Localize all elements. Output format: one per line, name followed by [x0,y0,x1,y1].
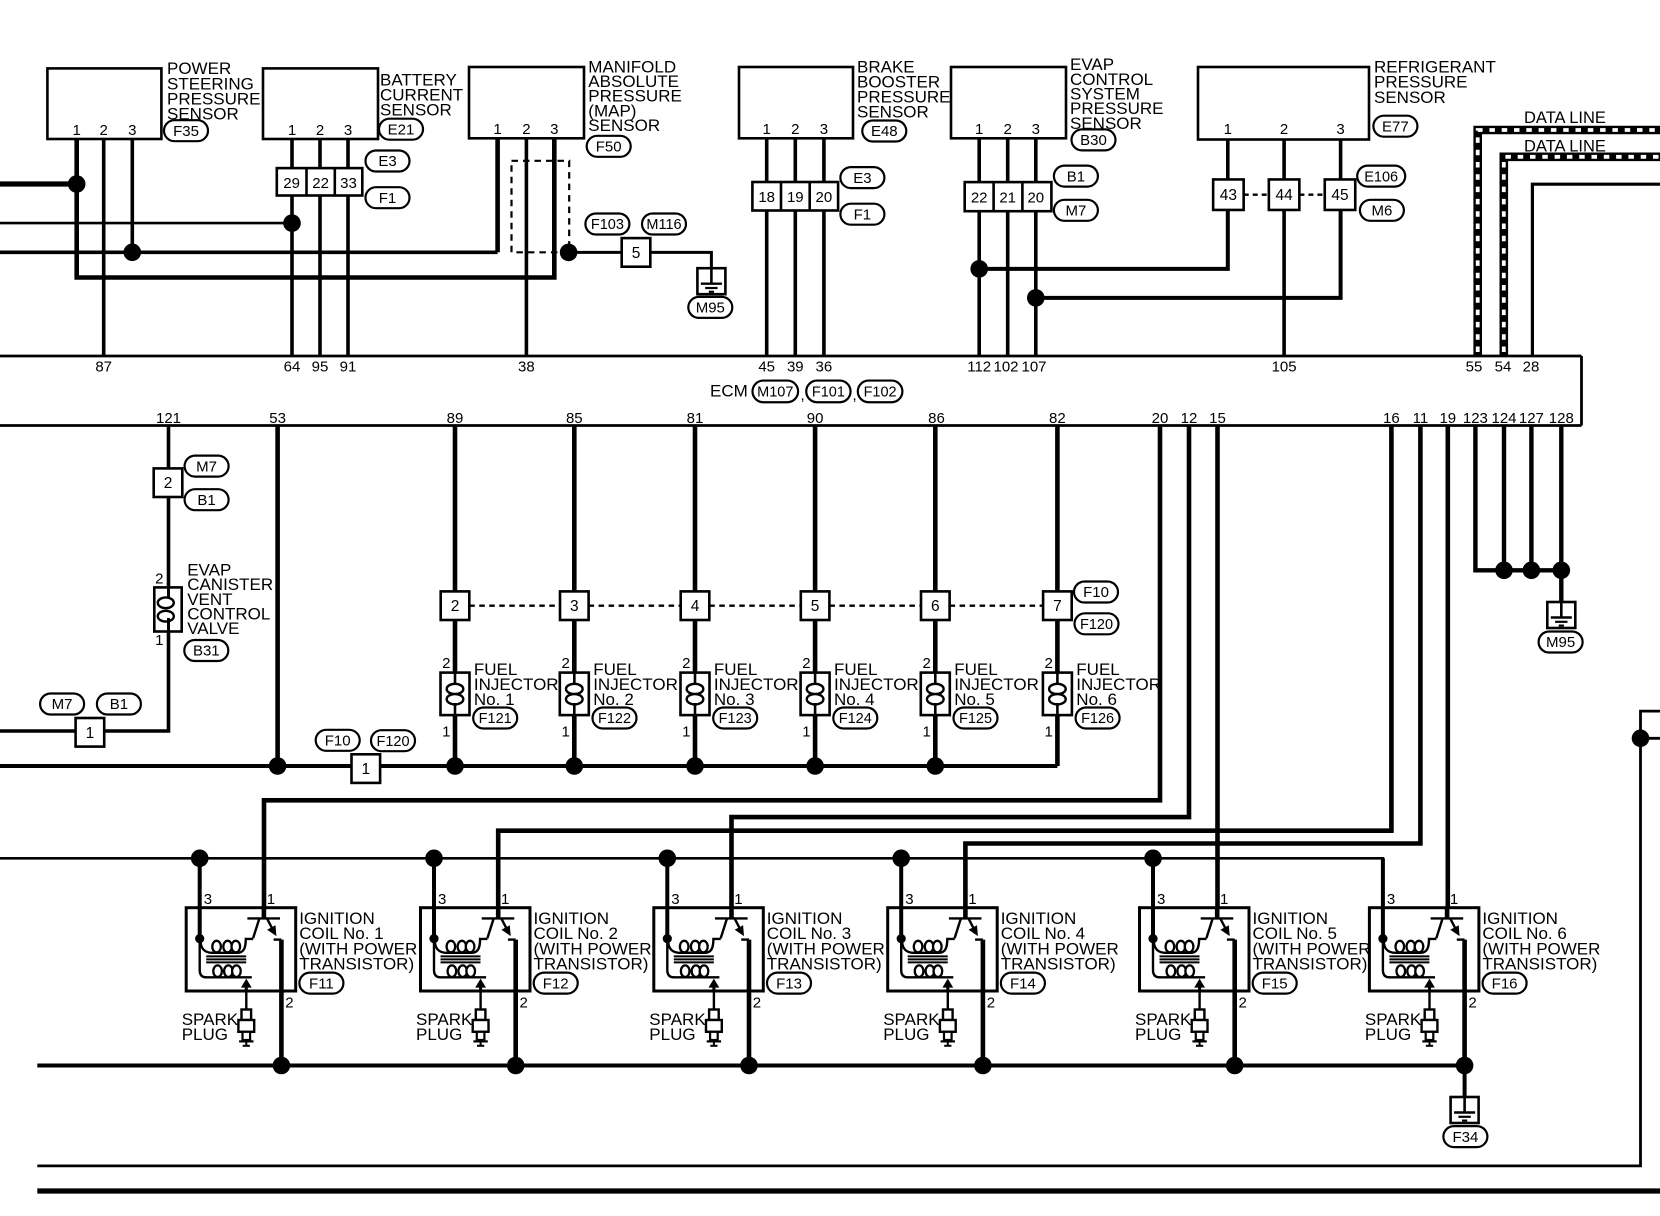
wire: dashed splice link [950,605,1044,607]
svg-text:PLUG: PLUG [1135,1025,1181,1044]
svg-text:38: 38 [518,359,535,376]
svg-text:22: 22 [971,189,988,206]
svg-text:E106: E106 [1364,169,1398,185]
svg-text:45: 45 [1331,187,1348,204]
node: shield drain junction [560,244,578,262]
svg-text:M95: M95 [696,300,725,317]
svg-text:2: 2 [1468,995,1476,1012]
svg-text:No. 1: No. 1 [474,690,515,709]
svg-text:2: 2 [451,598,460,615]
wire: ECM to fuel injector No. 6 [1055,426,1060,592]
wire: ECM pin 19 to ignition coil No. 6 pin 1 [1446,426,1451,919]
svg-text:F102: F102 [864,385,897,401]
svg-text:SENSOR: SENSOR [588,116,660,135]
svg-text:PLUG: PLUG [883,1025,929,1044]
svg-text:M7: M7 [1065,203,1086,220]
svg-text:64: 64 [284,359,301,376]
connector label B30 [1072,129,1116,150]
svg-text:4: 4 [691,598,700,615]
node: junction coil 5 pin 2 on ground bus [1226,1057,1244,1075]
wire: ECM pin 124 [1502,426,1506,571]
connector label F10 [1074,582,1118,603]
node: junction injector No. 4 on bus [806,757,824,775]
svg-text:F126: F126 [1081,711,1114,727]
svg-text:3: 3 [671,891,679,908]
svg-text:2: 2 [791,121,799,138]
svg-text:No. 6: No. 6 [1076,690,1117,709]
svg-text:PLUG: PLUG [182,1025,228,1044]
svg-text:F121: F121 [479,711,512,727]
wire: dashed link 44-45 [1299,193,1324,195]
svg-text:M116: M116 [646,217,681,233]
power steering pressure sensor F35 [47,68,161,139]
fuel injector No. 4 F124 [801,620,830,766]
wire: off-page line from right edge down to bottom rail [37,711,1660,1166]
svg-text:F1: F1 [379,190,397,207]
svg-text:121: 121 [156,410,181,427]
connector label F1 [366,187,410,208]
svg-text:TRANSISTOR): TRANSISTOR) [299,954,414,973]
svg-text:107: 107 [1021,359,1046,376]
wire: dashed splice link [709,605,801,607]
wire: ECM pin 15 to ignition coil No. 5 pin 1 [1215,426,1220,919]
wire: power steering pin 3 drop [131,139,135,252]
svg-text:B31: B31 [193,643,220,660]
svg-text:1: 1 [288,122,296,139]
node: junction pin 53 / bus [269,757,287,775]
svg-text:20: 20 [1027,189,1044,206]
svg-text:3: 3 [204,891,212,908]
connector pin 43 [1213,179,1244,210]
connector label B1 [185,489,229,510]
wire: brake booster pin 3 to ECM pin 36 [822,139,826,356]
node: junction coil 1 pin 2 on ground bus [273,1057,291,1075]
node: junction EVAP pin 1 / refrigerant pin 1 [970,260,988,278]
svg-text:F123: F123 [719,711,752,727]
svg-text:18: 18 [758,189,775,206]
svg-text:DATA LINE: DATA LINE [1524,109,1606,127]
connector label F10 [316,730,360,751]
svg-text:PLUG: PLUG [416,1025,462,1044]
svg-text:28: 28 [1523,359,1540,376]
svg-text:7: 7 [1053,598,1062,615]
svg-text:85: 85 [566,410,583,427]
wire: brake booster pin 1 to ECM pin 45 [765,139,769,356]
svg-text:1: 1 [442,724,450,741]
node: junction pin 128 [1553,562,1571,580]
svg-text:No. 2: No. 2 [593,690,634,709]
node: junction coil 2 pin 3 on supply bus [425,850,443,868]
node: junction pin 127 [1523,562,1541,580]
connector label B1 [97,694,141,715]
svg-text:B30: B30 [1080,132,1107,149]
svg-text:54: 54 [1495,359,1512,376]
svg-text:B1: B1 [197,492,215,509]
svg-text:39: 39 [787,359,804,376]
splice 1 (M7/B1) [76,718,105,747]
svg-text:91: 91 [340,359,357,376]
node: junction coil 6 pin 2 on ground bus [1456,1057,1474,1075]
svg-text:20: 20 [1152,410,1169,427]
wire: ECM pin 53 to injector supply bus [275,426,280,767]
connector label E3 [366,151,410,172]
connector label F15 [1253,973,1297,994]
connector label F13 [767,973,811,994]
svg-text:M7: M7 [52,696,73,713]
svg-text:2: 2 [987,995,995,1012]
connector label E77 [1373,116,1417,137]
connector label F35 [164,120,208,141]
node: junction coil 4 pin 3 on supply bus [892,850,910,868]
svg-text:3: 3 [1387,891,1395,908]
connector label E106 [1357,166,1405,187]
svg-text:F103: F103 [591,217,624,233]
svg-text:45: 45 [758,359,775,376]
brake booster pressure sensor E48 [739,67,853,138]
fuel injector No. 6 F126 [1043,620,1072,766]
node: junction power steering pin 3 on ground line [124,244,142,262]
EVAP canister vent control valve B31 [154,587,181,631]
connector label F50 [587,136,631,157]
svg-text:82: 82 [1049,410,1066,427]
connector label F122 [593,708,637,729]
svg-text:F10: F10 [325,733,351,750]
svg-text:124: 124 [1491,410,1516,427]
splice 5 (F103/M116) [622,238,651,267]
ECM (M107),(F101),(F102) [0,355,1582,358]
svg-text:1: 1 [86,725,95,742]
svg-text:1: 1 [1224,121,1232,138]
svg-text:3: 3 [128,122,136,139]
wire: refrigerant pin 1 branch [979,210,1228,269]
connector 29/22/33 (E3/F1) [277,168,363,195]
svg-text:PLUG: PLUG [1365,1025,1411,1044]
wire: ECM pin 16 to ignition coil No. 2 pin 1 [498,426,1391,919]
svg-text:F122: F122 [598,711,631,727]
svg-text:3: 3 [905,891,913,908]
svg-text:2: 2 [285,995,293,1012]
ground M95 [697,268,725,294]
fuel injector No. 1 F121 [441,620,470,766]
wire: DATA LINE 1 (dashed sheath) to ECM pin 55 [1478,130,1660,356]
wire: bottom page line [37,1188,1660,1193]
svg-text:F120: F120 [376,734,409,750]
manifold absolute pressure (MAP) sensor F50 [469,67,584,138]
wire: refrigerant pin 2 to ECM pin 105 [1282,140,1286,356]
svg-text:F13: F13 [776,975,802,992]
splice 5 (F10/F120) [801,591,830,620]
wire: MAP sensor pin 2 to ECM pin 38 [525,139,529,356]
node: junction power steering pin 1 / feed line [68,175,86,193]
svg-text:SENSOR: SENSOR [1374,88,1446,107]
svg-text:33: 33 [340,175,357,192]
spark plug 2 [473,991,489,1046]
svg-text:2: 2 [561,655,569,672]
svg-text:95: 95 [312,359,329,376]
connector label E3 [840,167,884,188]
svg-text:2: 2 [316,122,324,139]
wire: ECM pin 127 [1529,426,1533,571]
wire: splice 1 to left edge [0,729,76,733]
svg-text:E48: E48 [871,123,898,140]
wire: sensor ground line y=252 from left edge to MAP pin 1 [0,251,498,255]
svg-text:1: 1 [73,122,81,139]
svg-text:1: 1 [682,724,690,741]
wire: ECM to fuel injector No. 1 [453,426,458,592]
svg-text:6: 6 [931,598,940,615]
spark plug 5 [1192,991,1208,1046]
connector label F11 [299,973,343,994]
connector label F34 [1443,1126,1487,1147]
wire: power steering pin 1 down and across to MAP pin 3 [77,139,555,278]
svg-text:87: 87 [95,359,112,376]
svg-text:F12: F12 [543,975,569,992]
svg-text:2: 2 [522,121,530,138]
connector label B31 [184,640,228,661]
svg-text:E3: E3 [378,153,396,170]
wire: ECM pin 123 to ground rail [1475,426,1561,571]
wire: solid line to ECM pin 28 [1532,184,1660,356]
spark plug 4 [940,991,956,1046]
connector 18/19/20 (E3/F1) [752,182,838,211]
svg-text:3: 3 [820,121,828,138]
svg-text:2: 2 [922,655,930,672]
node: junction coil 4 pin 2 on ground bus [974,1057,992,1075]
svg-text:PLUG: PLUG [649,1025,695,1044]
svg-text:F10: F10 [1083,584,1109,601]
svg-text:16: 16 [1383,410,1400,427]
wire: ECM pin 20 to ignition coil No. 1 pin 1 [264,426,1160,919]
wire: shield drain to splice 5 [569,251,622,254]
svg-text:11: 11 [1413,410,1429,427]
node: junction pin 124 [1495,562,1513,580]
svg-text:F125: F125 [959,711,992,727]
svg-text:ECM: ECM [710,381,748,400]
splice 1 (F10/F120) on bus [352,754,381,783]
svg-text:43: 43 [1220,187,1237,204]
svg-text:127: 127 [1519,410,1544,427]
splice 7 (F10/F120) [1043,591,1072,620]
wire: MAP sensor pin 1 riser [495,139,500,252]
svg-text:,: , [853,387,857,404]
ignition coil No. 1 (with power transistor) F11 [186,858,296,1065]
connector label E48 [862,121,906,142]
splice 6 (F10/F120) [921,591,950,620]
wire: dashed link 43-44 [1244,193,1269,195]
ignition coil No. 3 (with power transistor) F13 [654,858,764,1065]
svg-text:No. 3: No. 3 [714,690,755,709]
connector label M7 [1054,200,1098,221]
svg-text:TRANSISTOR): TRANSISTOR) [1482,954,1597,973]
svg-text:15: 15 [1209,410,1226,427]
connector label F1 [840,204,884,225]
wire: ECM to fuel injector No. 2 [572,426,577,592]
svg-text:1: 1 [561,724,569,741]
node: junction coil 1 pin 3 on supply bus [191,850,209,868]
connector label E21 [379,119,423,140]
svg-text:3: 3 [438,891,446,908]
connector label F12 [534,973,578,994]
wire: ECM to fuel injector No. 3 [693,426,698,592]
svg-text:TRANSISTOR): TRANSISTOR) [1253,954,1368,973]
svg-text:1: 1 [975,121,983,138]
svg-text:,: , [801,387,805,404]
svg-text:19: 19 [1439,410,1456,427]
node: junction coil 2 pin 2 on ground bus [507,1057,525,1075]
svg-text:1: 1 [1220,891,1228,908]
svg-text:12: 12 [1181,410,1198,427]
wire: battery sensor pin 3 to ECM pin 91 [346,139,350,356]
battery current sensor E21 [263,68,378,139]
svg-text:2: 2 [753,995,761,1012]
svg-text:105: 105 [1272,359,1297,376]
wire: dashed splice link [829,605,921,607]
svg-text:86: 86 [928,410,945,427]
svg-text:F16: F16 [1492,975,1518,992]
svg-text:F15: F15 [1262,975,1288,992]
connector label F121 [473,708,517,729]
wire: ECM to fuel injector No. 4 [813,426,818,592]
connector label F123 [713,708,757,729]
EVAP control system pressure sensor B30 [951,67,1066,138]
svg-text:M107: M107 [757,385,793,401]
wire: refrigerant pin 3 stub [1339,140,1343,180]
node: junction injector No. 3 on bus [686,757,704,775]
connector 22/21/20 (B1/M7) [965,182,1052,211]
svg-text:44: 44 [1275,187,1293,204]
connector label F126 [1076,708,1120,729]
wire: EVAP sensor pin 1 to ECM pin 112 [977,139,981,356]
svg-text:1: 1 [922,724,930,741]
svg-text:5: 5 [811,598,820,615]
node: junction battery current sensor pin 1 [283,214,301,232]
wire: dashed splice link [589,605,681,607]
wire: battery sensor pin 2 to ECM pin 95 [318,139,322,356]
svg-text:F101: F101 [812,385,845,401]
ground F34 [1451,1097,1479,1123]
svg-text:3: 3 [570,598,579,615]
connector pin 45 [1325,179,1356,210]
wire: ignition ground bus y=1065 [37,1064,1464,1068]
svg-text:1: 1 [802,724,810,741]
connector label M95 [688,297,732,318]
wire: ignition coil pin 3 supply bus y=858 [0,858,1383,907]
connector label F103 [585,214,629,235]
fuel injector No. 3 F123 [681,620,710,766]
ignition coil No. 4 (with power transistor) F14 [888,858,998,1065]
svg-text:No. 4: No. 4 [834,690,875,709]
wire: battery sensor pin 1 to ECM pin 64 [290,139,294,356]
svg-text:1: 1 [493,121,501,138]
wire: power steering pin 2 to ECM pin 87 [102,139,106,356]
connector pin 44 [1269,179,1300,210]
svg-text:M95: M95 [1546,634,1575,651]
shield (dashed) around MAP signal wires [512,161,570,253]
svg-text:102: 102 [993,359,1018,376]
wire: EVAP sensor pin 2 to ECM pin 102 [1006,139,1010,356]
svg-text:21: 21 [999,189,1016,206]
svg-text:M7: M7 [196,458,217,475]
svg-text:M6: M6 [1371,203,1392,220]
wire: splice 5 to ground M95 [650,252,711,268]
wire: ECM pin 128 to ground M95 [1559,426,1563,603]
svg-text:89: 89 [447,410,464,427]
svg-text:F11: F11 [309,975,334,992]
node: junction injector No. 2 on bus [566,757,584,775]
svg-text:112: 112 [967,359,991,376]
node: junction EVAP pin 3 / refrigerant pin 3 [1027,289,1045,307]
connector label F16 [1483,973,1527,994]
splice 3 (F10/F120) [560,591,589,620]
svg-text:2: 2 [100,122,108,139]
wire: brake booster pin 2 to ECM pin 39 [793,139,797,356]
svg-text:F34: F34 [1452,1129,1478,1146]
node: junction coil 3 pin 3 on supply bus [659,850,677,868]
svg-text:81: 81 [687,410,704,427]
svg-text:3: 3 [344,122,352,139]
svg-text:3: 3 [550,121,558,138]
wire: off-page stub at y=738 [1641,737,1660,740]
wire: DATA LINE 2 (dashed sheath) to ECM pin 54 [1504,157,1660,356]
spark plug 6 [1422,991,1438,1046]
splice 4 (F10/F120) [681,591,710,620]
svg-text:2: 2 [1239,995,1247,1012]
svg-text:F50: F50 [596,139,622,156]
wire: supply line y=223 from left edge to battery pin 1 [0,222,292,225]
connector label M116 [642,214,686,235]
refrigerant pressure sensor E77 [1198,67,1369,140]
svg-text:E3: E3 [853,170,871,187]
svg-text:1: 1 [1450,891,1458,908]
svg-text:SENSOR: SENSOR [857,103,929,122]
svg-text:E77: E77 [1382,118,1409,135]
svg-text:B1: B1 [1067,168,1085,185]
svg-text:5: 5 [632,245,641,262]
svg-text:123: 123 [1463,410,1488,427]
wire: ground bus to ground F34 [1463,1066,1467,1098]
wire: thick feed line at y=184 from left edge [0,181,77,186]
wire: ECM pin 11 to ignition coil No. 4 pin 1 [965,426,1420,919]
svg-text:F1: F1 [854,206,872,223]
svg-text:F120: F120 [1080,617,1113,633]
spark plug 3 [706,991,722,1046]
svg-text:2: 2 [1004,121,1012,138]
svg-text:DATA LINE: DATA LINE [1524,138,1606,156]
svg-text:F14: F14 [1010,975,1036,992]
svg-text:2: 2 [1045,655,1053,672]
svg-text:90: 90 [807,410,824,427]
svg-text:No. 5: No. 5 [954,690,995,709]
connector label B1 [1054,166,1098,187]
svg-text:2: 2 [802,655,810,672]
connector label M6 [1360,200,1404,221]
svg-text:19: 19 [787,189,804,206]
svg-text:1: 1 [968,891,976,908]
node: junction coil 5 pin 3 on supply bus [1144,850,1162,868]
connector label F14 [1001,973,1045,994]
svg-text:29: 29 [283,175,300,192]
svg-text:E21: E21 [388,121,415,138]
wire: refrigerant pin 1 stub [1226,140,1230,180]
wire: ECM pin 12 to ignition coil No. 3 pin 1 [732,426,1190,919]
svg-text:2: 2 [1280,121,1288,138]
svg-text:2: 2 [442,655,450,672]
node: junction coil 3 pin 2 on ground bus [740,1057,758,1075]
svg-text:36: 36 [816,359,833,376]
svg-text:3: 3 [1157,891,1165,908]
svg-text:53: 53 [269,410,286,427]
fuel injector No. 2 F122 [560,620,589,766]
